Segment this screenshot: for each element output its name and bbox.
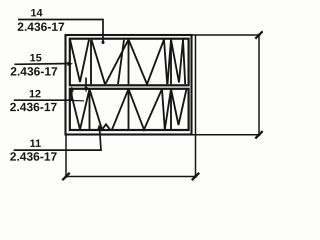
extension line bottom left vertical [65,135,67,177]
leader arrow 11 up [97,124,101,129]
svg-text:12: 12 [29,88,41,100]
svg-text:2.436-17: 2.436-17 [10,150,58,164]
leader arrow 15 [67,62,73,66]
tick bottom-left [62,173,69,180]
leader stub and arrow 12 down (into lower section) [85,78,87,89]
extension line right vertical [195,35,197,176]
inner box bottom section [70,89,189,130]
inner box top section [70,39,189,86]
dimension line right [258,35,260,135]
tick top right [255,31,262,38]
leader arrow dot 14 [101,41,104,44]
svg-text:2.436-17: 2.436-17 [10,100,58,114]
tick bottom right [255,131,262,138]
dimension line bottom [66,176,196,178]
svg-text:11: 11 [30,138,41,150]
svg-text:14: 14 [30,7,42,19]
svg-text:2.436-17: 2.436-17 [17,20,65,34]
outer box [66,35,192,135]
tick bottom-right [192,173,199,180]
winding zigzag bottom section [70,89,187,130]
extension line lower horizontal [192,134,260,136]
leader line 14 [18,20,103,42]
leader line 12 [14,88,72,100]
svg-text:15: 15 [30,52,42,64]
leader line 15 [14,63,70,66]
extension line top horizontal [192,34,260,36]
leader line 11 [14,126,101,150]
svg-text:2.436-17: 2.436-17 [10,65,58,79]
leader arrow 12 up [70,86,74,91]
winding zigzag top section [70,40,185,85]
